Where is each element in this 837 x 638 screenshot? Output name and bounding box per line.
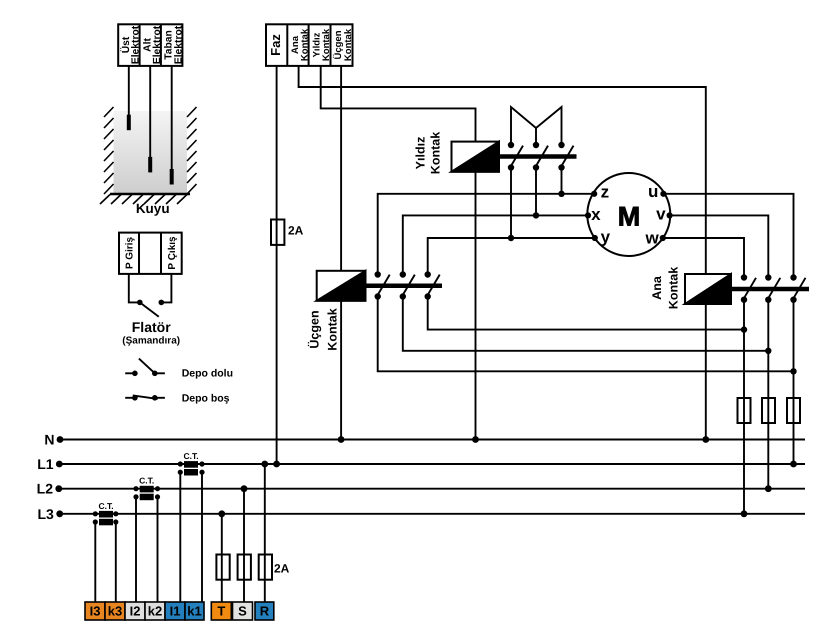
- svg-text:z: z: [601, 183, 610, 202]
- svg-text:P Giriş: P Giriş: [124, 237, 135, 269]
- svg-text:Kontak: Kontak: [667, 267, 681, 309]
- svg-text:Elektrot: Elektrot: [152, 25, 163, 64]
- svg-text:w: w: [644, 228, 659, 247]
- svg-text:u: u: [648, 182, 658, 201]
- svg-text:Kuyu: Kuyu: [136, 201, 170, 216]
- svg-text:y: y: [601, 228, 611, 247]
- svg-text:Elektrot: Elektrot: [173, 25, 184, 64]
- svg-text:L3: L3: [37, 506, 54, 522]
- svg-text:L1: L1: [37, 456, 54, 472]
- svg-text:Yıldız: Yıldız: [413, 137, 427, 170]
- svg-text:x: x: [591, 205, 601, 224]
- svg-text:Ana: Ana: [650, 275, 664, 300]
- svg-text:I2: I2: [130, 604, 141, 619]
- svg-text:P Çıkış: P Çıkış: [167, 236, 178, 270]
- svg-text:v: v: [656, 205, 666, 224]
- svg-text:Kontak: Kontak: [300, 28, 311, 61]
- svg-text:N: N: [44, 432, 54, 448]
- svg-text:Kontak: Kontak: [343, 28, 354, 61]
- svg-text:Kontak: Kontak: [321, 28, 332, 61]
- svg-text:Flatör: Flatör: [132, 319, 171, 335]
- svg-text:(Şamandıra): (Şamandıra): [122, 336, 180, 347]
- svg-text:T: T: [217, 604, 225, 619]
- svg-text:k3: k3: [108, 604, 122, 619]
- svg-text:M: M: [618, 201, 641, 231]
- svg-text:Elektrot: Elektrot: [131, 25, 142, 64]
- svg-text:I3: I3: [90, 604, 101, 619]
- svg-text:Faz: Faz: [268, 34, 283, 56]
- svg-text:R: R: [260, 604, 270, 619]
- svg-text:k2: k2: [148, 604, 162, 619]
- svg-text:I1: I1: [170, 604, 181, 619]
- svg-text:L2: L2: [37, 481, 54, 497]
- svg-text:C.T.: C.T.: [183, 451, 198, 461]
- svg-text:2A: 2A: [288, 224, 304, 238]
- svg-text:S: S: [238, 604, 247, 619]
- svg-text:Üçgen: Üçgen: [307, 310, 321, 348]
- svg-text:Depo boş: Depo boş: [182, 393, 230, 405]
- svg-text:2A: 2A: [274, 562, 290, 576]
- svg-text:C.T.: C.T.: [98, 501, 113, 511]
- svg-text:Kontak: Kontak: [325, 308, 339, 350]
- svg-text:Kontak: Kontak: [429, 132, 443, 174]
- svg-text:Depo dolu: Depo dolu: [182, 367, 233, 379]
- svg-text:C.T.: C.T.: [139, 476, 154, 486]
- svg-text:k1: k1: [187, 604, 201, 619]
